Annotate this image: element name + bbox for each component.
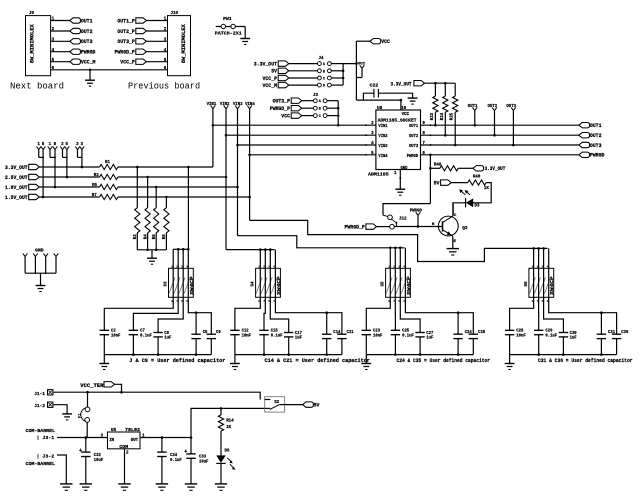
ground at Q3 (447, 248, 459, 250)
svg-text:10nF: 10nF (516, 334, 526, 338)
resistor R2 (136, 167, 138, 208)
ground at C32 (80, 483, 92, 485)
svg-text:R23: R23 (431, 112, 435, 120)
wire 5V flag to R40 (451, 182, 468, 184)
switch S6 (SW4CP) (529, 268, 554, 297)
flag OUT3 (70, 39, 81, 44)
svg-text:3.3V_OUT: 3.3V_OUT (254, 62, 277, 68)
wire C22 right to ground (378, 93, 412, 98)
resistor R5 (100, 184, 118, 189)
svg-text:J & C9 = User defined capacito: J & C9 = User defined capacitor (129, 358, 225, 364)
svg-text:VCC_P: VCC_P (263, 76, 278, 82)
flag OUT2 (70, 28, 81, 33)
wire VCC flag to bus (356, 40, 370, 42)
wire S3 switch 2 (133, 249, 178, 330)
wire 1.5V_OUT flag to resistor (39, 196, 99, 198)
wire header 1.8 to rail (54, 150, 56, 187)
wire J3 row B to bus (327, 107, 338, 109)
wire S4 switch 1 (235, 250, 260, 331)
svg-text:IN: IN (109, 438, 114, 443)
wire S5 switch 1 (366, 248, 390, 330)
wire J3 row C to bus (327, 115, 338, 117)
capacitor C14 user defined (322, 333, 331, 335)
capacitor C27 1uF (415, 332, 424, 334)
wire S3 switch 1 (104, 249, 173, 330)
wire regulator output riser to S2 (191, 408, 265, 437)
ground at C22 (408, 97, 418, 99)
wire PWRGD_P to J3 (302, 107, 314, 109)
svg-text:5V: 5V (271, 69, 277, 75)
wire OUT1_P to J10 pin1 (146, 20, 167, 22)
wire J4 row A to bus (331, 63, 343, 65)
junctions bank4 rail (532, 247, 535, 250)
svg-text:C12: C12 (242, 330, 249, 334)
svg-text:OUT: OUT (131, 438, 139, 443)
wire J4 row C to bus (331, 77, 343, 79)
svg-text:COM-BARREL: COM-BARREL (26, 428, 56, 434)
wire OUT2_P to J10 pin2 (146, 30, 167, 32)
capacitor C7 0.1uF (129, 329, 138, 331)
svg-text:OUT3: OUT3 (409, 143, 418, 149)
wire bank2 rail feed (226, 249, 275, 251)
wire J4 row D to bus (331, 84, 343, 86)
svg-text:OUT1_P: OUT1_P (117, 18, 134, 24)
wire OUT1 line (421, 124, 579, 126)
svg-text:10nF: 10nF (373, 334, 383, 338)
flag OUT1 (output) (579, 123, 590, 128)
svg-text:0.1uF: 0.1uF (402, 334, 414, 338)
svg-text:D6: D6 (225, 449, 230, 453)
svg-text:VCC: VCC (402, 111, 410, 117)
ground at bank1 (103, 355, 105, 364)
svg-text:10nF: 10nF (242, 334, 252, 338)
svg-text:VIN1: VIN1 (378, 123, 387, 129)
capacitor C35 user defined (469, 333, 478, 335)
svg-text:PWRGD_P: PWRGD_P (115, 50, 135, 56)
ground at bank2 (234, 355, 236, 364)
svg-text:J10: J10 (171, 12, 179, 16)
wire header 1.5 to rail (42, 150, 44, 197)
svg-text:R2: R2 (134, 234, 138, 239)
connector J9 (26, 16, 51, 76)
svg-text:S3: S3 (164, 281, 169, 286)
wire Q3 emitter to ground (452, 236, 454, 249)
wire J9 pin5 to VCC_M flag (51, 61, 70, 63)
svg-text:ADM1185: ADM1185 (368, 171, 389, 177)
wire J12 to Q3 base (394, 226, 442, 228)
wire U5 OUT (140, 437, 191, 439)
svg-text:8W_MINIMOLEX: 8W_MINIMOLEX (181, 24, 187, 63)
wire U5 COM to ground (124, 449, 126, 484)
svg-text:C17: C17 (295, 332, 302, 336)
ground at U5 COM (118, 483, 130, 485)
svg-text:C36: C36 (621, 331, 628, 335)
svg-text:VCC: VCC (381, 39, 390, 45)
svg-text:OUT3_P: OUT3_P (273, 99, 290, 105)
svg-text:R7: R7 (92, 194, 97, 198)
wire PWRGD_P to J10 pin4 (146, 51, 167, 53)
capacitor C23 10nF (362, 329, 371, 331)
resistor R3 (100, 174, 118, 179)
svg-text:10uF: 10uF (94, 459, 104, 463)
flag VCC (370, 39, 381, 44)
wire S5 switch 4 (405, 248, 473, 334)
svg-text:PWRGD: PWRGD (407, 153, 419, 159)
wire R23 to OUT1 line (434, 112, 436, 125)
svg-text:OUT2: OUT2 (81, 29, 93, 35)
svg-text:ADM1185_SOCKET: ADM1185_SOCKET (378, 118, 417, 124)
wire S5 switch 3 (400, 248, 420, 333)
capacitor C24 user defined (453, 333, 462, 335)
svg-text:PW1: PW1 (223, 16, 232, 22)
flag OUT3 (output) (579, 142, 590, 147)
wire J9 pin6 to J10 pin6 (51, 69, 168, 71)
wire J9 pin3 to OUT3 flag (51, 40, 70, 42)
capacitor C30 1uF (559, 332, 568, 334)
wire 5V to J4 (289, 70, 318, 72)
svg-text:C30: C30 (570, 332, 577, 336)
svg-text:C34: C34 (170, 454, 177, 458)
svg-text:R3: R3 (94, 174, 99, 178)
svg-text:C15: C15 (271, 330, 278, 334)
wire J9 pin4 to PWRGD flag (51, 51, 70, 53)
wire VIN2 vertical (225, 109, 227, 250)
svg-text:C21: C21 (347, 331, 354, 335)
resistor R4 (147, 177, 149, 208)
ground at GND test points (40, 273, 42, 285)
wire header 2.5 to rail (66, 150, 68, 177)
wire S6 switch 4 (549, 248, 617, 334)
resistor R6 (155, 187, 157, 208)
flag OUT1 (70, 18, 81, 23)
svg-text:F1: F1 (79, 413, 83, 417)
wire C22 left (363, 93, 374, 100)
switch S4 (SW4CP) (256, 268, 281, 297)
svg-text:| J3-2: | J3-2 (37, 454, 55, 460)
svg-text:R40: R40 (473, 175, 481, 179)
wire OUT3_P to J3 (302, 100, 314, 102)
capacitor C15 0.1uF (259, 329, 268, 331)
svg-text:D: D (323, 85, 325, 89)
svg-text:0.1uF: 0.1uF (140, 334, 152, 338)
svg-text:| J3-1: | J3-1 (37, 435, 55, 441)
LED D3 light arrows (462, 191, 466, 194)
wire bank1 rail (173, 248, 188, 250)
svg-text:U8: U8 (377, 106, 383, 111)
patch PW1 (216, 26, 246, 28)
svg-text:C9: C9 (216, 331, 221, 335)
svg-text:3.3V_OUT: 3.3V_OUT (5, 165, 28, 171)
svg-text:78L02: 78L02 (125, 427, 140, 433)
svg-text:VIN3: VIN3 (233, 102, 243, 107)
wire bank1 feed (187, 167, 189, 249)
ground at bank3 (365, 355, 367, 364)
svg-text:S4: S4 (251, 281, 256, 286)
capacitor C12 10nF (230, 329, 239, 331)
jumper J3 row B (313, 106, 317, 110)
wire 3.3V_OUT to J4 (289, 63, 318, 65)
ground at U8 (395, 188, 405, 190)
junction ground tap (89, 69, 92, 72)
svg-text:OUT2: OUT2 (590, 133, 602, 139)
jumper J4 row C (318, 76, 322, 80)
transistor Q3 (438, 216, 458, 236)
resistor R1 (100, 164, 118, 169)
wire VIN3 vertical (237, 109, 239, 236)
wire VIN4 staircase to bank4 (250, 220, 548, 261)
resistor R7 (100, 194, 118, 199)
svg-text:5V: 5V (314, 403, 320, 409)
ground at C33 (185, 483, 197, 485)
wire PWRGD line (421, 154, 579, 156)
svg-text:S5: S5 (381, 281, 386, 286)
capacitor C34 0.1uF (157, 451, 166, 453)
wire R40 to LED D3 (473, 183, 491, 203)
svg-text:VCC_M: VCC_M (81, 60, 96, 66)
svg-text:C8: C8 (164, 332, 169, 336)
svg-text:C27: C27 (426, 332, 433, 336)
flag OUT2 (output) (579, 133, 590, 138)
wire 3.3V_OUT flag to resistor (39, 166, 99, 168)
wire Q3 collector (452, 203, 454, 216)
capacitor C29 0.1uF (534, 329, 543, 331)
ground at J3-2 (60, 483, 72, 485)
wire rail 1.8V to VIN3 (118, 186, 238, 188)
resistor R8 (165, 197, 167, 208)
capacitor C5 user defined (191, 333, 200, 335)
svg-text:VCC: VCC (281, 114, 290, 120)
wire PWRGD down to J12 (429, 155, 431, 204)
svg-text:R8: R8 (163, 234, 167, 239)
wire LED D6 to ground (220, 463, 222, 484)
resistor R25 (454, 83, 456, 96)
svg-text:C29: C29 (545, 330, 552, 334)
svg-text:VIN4: VIN4 (378, 153, 387, 159)
svg-text:R24: R24 (441, 112, 445, 120)
wire VCC_P to J10 pin5 (146, 61, 167, 63)
svg-text:8W_MINIMOLEX: 8W_MINIMOLEX (30, 24, 36, 63)
wire C31 drop (600, 313, 602, 335)
ground at C34 (156, 483, 168, 485)
wire S3 switch 3 (158, 249, 183, 332)
wire bus to U8 pin10 (356, 99, 401, 101)
svg-text:10: 10 (401, 106, 407, 111)
svg-text:OUT2: OUT2 (409, 133, 418, 139)
svg-text:1uF: 1uF (570, 337, 577, 341)
wire S6 switch 1 (510, 248, 534, 330)
wire OUT3 line (421, 144, 579, 146)
svg-text:J9: J9 (29, 12, 34, 16)
wire U8 GND pin to ground (399, 170, 401, 190)
svg-text:GND: GND (401, 165, 408, 171)
svg-text:J12: J12 (399, 217, 407, 222)
svg-text:10uF: 10uF (199, 460, 209, 464)
svg-text:PATCH-2X1: PATCH-2X1 (215, 31, 242, 37)
wire J9 pin2 to OUT2 flag (51, 30, 70, 32)
wire VCC_M to J4 (289, 84, 318, 86)
flag VCC_M (70, 59, 81, 64)
svg-text:B: B (323, 70, 325, 74)
svg-text:C22: C22 (370, 85, 379, 89)
svg-text:C2: C2 (111, 330, 116, 334)
svg-text:1uF: 1uF (426, 337, 433, 341)
svg-text:VCC_M: VCC_M (263, 83, 278, 89)
wire VCC bus vertical (355, 41, 357, 100)
wire R48 to flag (458, 167, 473, 169)
junctions bank3 rail (389, 247, 392, 250)
svg-text:OUT1: OUT1 (590, 123, 602, 129)
svg-text:OUT3: OUT3 (590, 143, 602, 149)
wire bank2 ground rail (235, 354, 342, 356)
svg-text:10nF: 10nF (111, 334, 121, 338)
svg-text:C14 & C21 = User defined capac: C14 & C21 = User defined capacitor (265, 358, 370, 364)
wire OUT2 line (421, 134, 579, 136)
wire VIN3 staircase to bank3 (238, 236, 405, 248)
svg-text:GND: GND (35, 249, 44, 254)
resistor R23 (434, 83, 436, 96)
wire VIN1 vertical (212, 109, 214, 167)
svg-text:C31 & C36 = User defined capac: C31 & C36 = User defined capacitor (538, 358, 633, 364)
junctions bank1 rail (177, 248, 180, 251)
svg-text:PWRGD: PWRGD (590, 153, 605, 159)
wire rail 1.5V to VIN4 (118, 196, 250, 198)
svg-text:0.1uF: 0.1uF (271, 334, 283, 338)
wire VIN4 vertical (249, 109, 251, 221)
svg-text:OUT3_P: OUT3_P (117, 39, 134, 45)
switch S2 (265, 397, 285, 412)
svg-text:1K: 1K (484, 187, 489, 191)
ground at J1-2 (62, 413, 72, 415)
svg-text:PWRGD: PWRGD (81, 50, 96, 56)
wire R25 to OUT3 line (454, 112, 456, 145)
wire S6 switch 2 (538, 248, 540, 330)
svg-text:2.5V_OUT: 2.5V_OUT (5, 175, 28, 181)
wire bank1 ground rail (104, 354, 211, 356)
wire 3.3V_OUT to pull-up resistors (425, 82, 456, 84)
ground at PW1 (244, 27, 246, 39)
wire divider bottom rail (137, 249, 166, 251)
wire C14 drop (326, 313, 328, 335)
resistor R14 (220, 408, 222, 415)
svg-text:+: + (79, 448, 82, 454)
capacitor C21 user defined (337, 333, 346, 335)
LED D3 (465, 198, 467, 207)
voltage regulator U5 78L02 (108, 432, 141, 449)
svg-text:5V: 5V (434, 181, 440, 187)
wire bank3 ground rail (366, 354, 473, 356)
capacitor C8 1uF (153, 332, 162, 334)
wire VCC_TER to main (115, 384, 122, 392)
wire VCC to J3 (302, 115, 314, 117)
flag 3.3V_OUT (R48) (473, 166, 484, 171)
svg-text:VIN2: VIN2 (378, 133, 387, 139)
wire J4 bus (343, 64, 356, 86)
wire J9 pin1 to OUT1 flag (51, 20, 70, 22)
wire S6 switch 3 (544, 248, 564, 332)
wire LED cathode to Q3 collector (453, 203, 466, 216)
wire S4 switch 4 (275, 250, 342, 335)
LED D6 light arrows (227, 458, 231, 462)
capacitor C36 user defined (612, 333, 621, 335)
svg-text:0.1uF: 0.1uF (545, 334, 557, 338)
svg-text:PWRGD_P: PWRGD_P (345, 225, 365, 231)
resistor R24 (444, 83, 446, 96)
ground at D6 (215, 483, 227, 485)
wire S2 to 5V flag (285, 404, 303, 406)
wire PWRGD_P flag to J12 (377, 226, 390, 228)
connector J10 (168, 16, 191, 76)
op-amp U8 ADM1185 socket (376, 110, 421, 170)
svg-text:C23: C23 (373, 330, 380, 334)
svg-text:U5: U5 (111, 427, 117, 433)
svg-text:S6: S6 (524, 281, 529, 286)
svg-text:Previous board: Previous board (128, 82, 200, 92)
svg-text:VIN4: VIN4 (245, 102, 255, 107)
svg-text:B: B (319, 108, 321, 112)
wire U8 pin4 line (238, 144, 376, 146)
svg-text:3.3V_OUT: 3.3V_OUT (391, 81, 412, 87)
svg-text:1.5V_OUT: 1.5V_OUT (5, 195, 28, 201)
svg-text:OUT2_P: OUT2_P (117, 29, 134, 35)
wire J3 bus to VIN1 line (337, 101, 339, 126)
switch S3 (SW4CP) (169, 268, 194, 297)
jumper J4 row B (318, 69, 322, 73)
svg-text:0.1uF: 0.1uF (170, 459, 182, 463)
flag PWRGD (output) (579, 152, 590, 157)
wire U8 pin3 line (226, 134, 376, 136)
svg-text:C33: C33 (199, 456, 206, 460)
wire J3-1 to U5 IN (57, 437, 108, 439)
wire R14 to LED D6 (220, 431, 222, 455)
svg-text:C35: C35 (478, 331, 485, 335)
jumper J3 row C (313, 114, 317, 118)
svg-text:C24 & C35 = User defined capac: C24 & C35 = User defined capacitor (397, 358, 491, 364)
svg-text:1.8V_OUT: 1.8V_OUT (5, 185, 28, 191)
svg-text:VCC_P: VCC_P (120, 60, 135, 66)
svg-text:R14: R14 (226, 419, 234, 423)
wire J4 row B to bus (331, 70, 343, 72)
jumper J4 row A (318, 62, 322, 66)
wire R24 to OUT2 line (444, 112, 446, 135)
junctions bank2 rail (259, 248, 262, 251)
wire U8 pin2 line (213, 124, 376, 126)
svg-text:R4: R4 (144, 234, 148, 239)
svg-text:C: C (319, 115, 321, 119)
wire rail 3.3V to VIN1 corner (118, 166, 213, 168)
jumper J4 row D (318, 83, 322, 87)
svg-text:J1-1: J1-1 (34, 391, 45, 397)
wire VCC_P to J4 (289, 77, 318, 79)
wire header 3.3 to rail (81, 150, 83, 167)
flag 5V (output) (303, 402, 314, 407)
wire C24 drop (457, 313, 459, 335)
switch S5 (SW4CP) (386, 268, 411, 297)
wire U8 pin10 stub (400, 100, 402, 110)
svg-text:R5: R5 (92, 184, 97, 188)
wire U8 pin5 line (250, 154, 376, 156)
capacitor C31 user defined (597, 333, 606, 335)
wire S5 switch 2 (394, 248, 396, 330)
svg-text:3.3V_OUT: 3.3V_OUT (485, 166, 506, 172)
svg-text:1K: 1K (226, 426, 231, 430)
wire S3 switch 4 (188, 249, 211, 334)
junction PWRGD branch (429, 154, 432, 157)
svg-text:COM-BARREL: COM-BARREL (26, 461, 56, 467)
wire rail 2.5V to VIN2 (118, 176, 226, 178)
flag PWRGD (70, 49, 81, 54)
svg-text:Next board: Next board (10, 82, 64, 92)
wire J3 row A to bus (327, 100, 338, 102)
